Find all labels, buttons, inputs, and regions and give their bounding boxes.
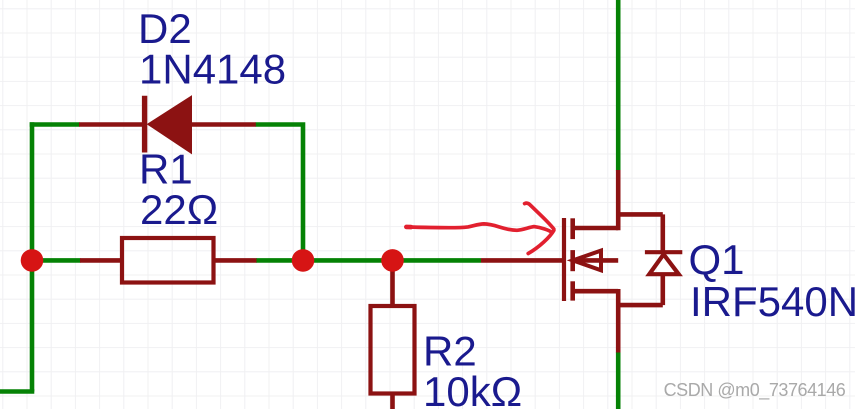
diode D2 [79, 96, 256, 154]
annotation arrow (hand-drawn) [406, 203, 554, 253]
svg-text:10kΩ: 10kΩ [423, 368, 522, 409]
wire: bottom source net vertical [616, 352, 621, 409]
junction: middle node [292, 249, 315, 272]
svg-text:IRF540N: IRF540N [690, 278, 855, 325]
resistor R2 [371, 260, 415, 409]
wire: bottom-left horizontal exiting left [0, 389, 34, 394]
transistor Q1 (N-MOSFET) [481, 170, 682, 353]
wire: top drain net vertical [616, 0, 621, 171]
resistor R1 [80, 238, 257, 283]
wire: top-left horizontal to diode [30, 122, 80, 127]
svg-text:22Ω: 22Ω [140, 186, 218, 233]
junction: R2 node [381, 249, 404, 272]
svg-text:Q1: Q1 [689, 236, 745, 283]
svg-text:1N4148: 1N4148 [139, 46, 286, 93]
wire: main horizontal left segment [32, 258, 81, 263]
wire: diode anode to right corner [256, 125, 304, 261]
junction: left node [21, 249, 44, 272]
wire: left vertical net [30, 122, 35, 391]
wire: main horizontal middle segment [256, 258, 481, 263]
svg-text:CSDN @m0_73764146: CSDN @m0_73764146 [664, 380, 846, 401]
